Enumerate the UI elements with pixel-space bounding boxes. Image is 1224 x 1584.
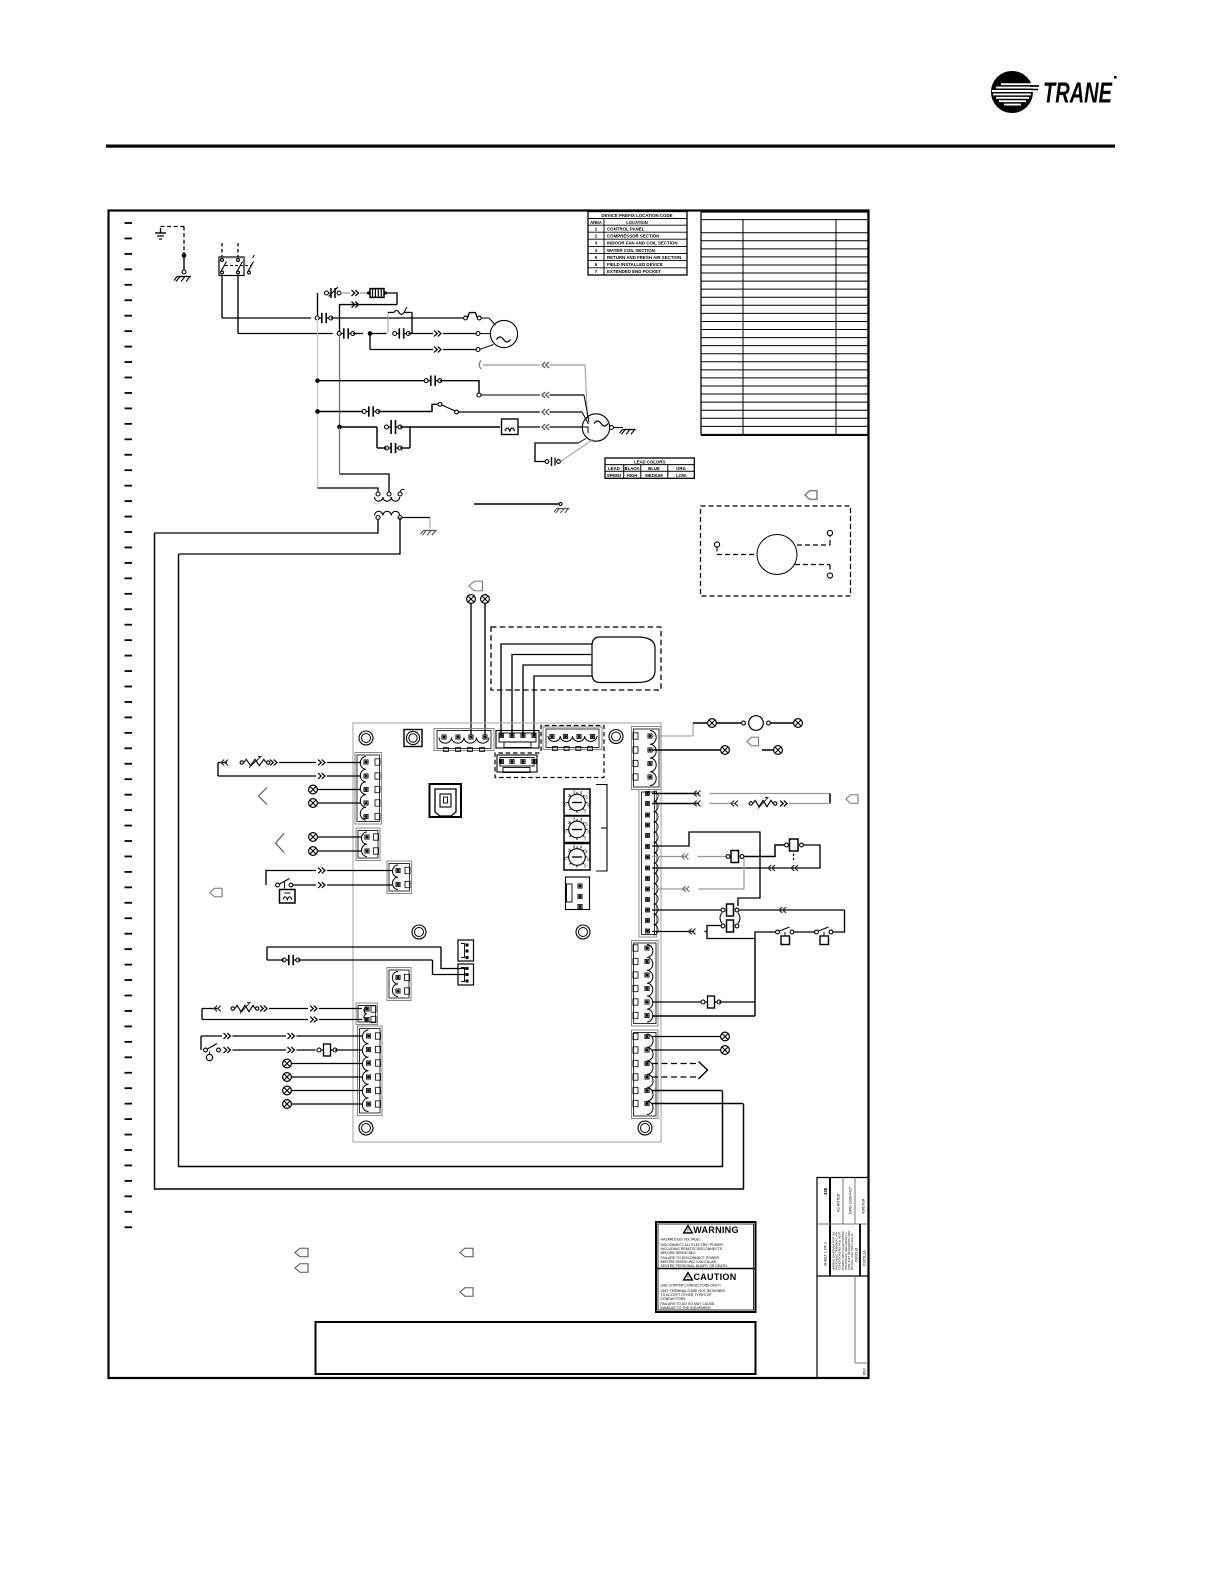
note chevron (276, 834, 285, 853)
fan motor 1B1 (490, 320, 517, 347)
wire (652, 793, 699, 795)
wire (202, 1009, 219, 1020)
wire (292, 1090, 363, 1092)
transformer 1T1 (375, 489, 405, 519)
wire (433, 960, 467, 975)
plug chevron (542, 362, 549, 368)
wire (402, 518, 430, 529)
dashed zone (495, 726, 604, 778)
node (315, 409, 319, 413)
connector (545, 457, 560, 466)
wire (652, 1103, 744, 1105)
warning caution label (656, 1222, 756, 1312)
header H1 (458, 940, 474, 961)
mounting hole (638, 1121, 652, 1135)
wire (501, 644, 592, 735)
plug chevron (779, 907, 786, 913)
plug chevron (693, 801, 700, 807)
wire L2 (237, 276, 239, 334)
wire (550, 365, 588, 419)
svg-text:DAMAGE TO THE EQUIPMENT.: DAMAGE TO THE EQUIPMENT. (661, 1306, 712, 1310)
wire (693, 722, 707, 724)
header P3 (566, 877, 590, 910)
wire (222, 317, 311, 319)
bracket (596, 785, 607, 872)
wire (710, 803, 737, 805)
svg-text:C802318: C802318 (855, 1248, 859, 1262)
wire (340, 305, 398, 334)
svg-text:SHEET 1 OF 2: SHEET 1 OF 2 (824, 1242, 828, 1266)
wire (652, 1090, 723, 1092)
wire (298, 959, 433, 961)
wire (341, 292, 351, 294)
wire (652, 749, 720, 751)
wire (550, 395, 590, 422)
terminal (182, 270, 186, 274)
sensor 4R1 (592, 637, 655, 683)
header H2 (458, 964, 474, 985)
pump motor (757, 535, 797, 575)
flag note 9 (460, 1248, 473, 1257)
plug chevron (310, 1017, 317, 1023)
svg-text:COMPRESSOR SECTION: COMPRESSOR SECTION (607, 234, 659, 239)
svg-text:LEAD COLORS: LEAD COLORS (634, 459, 665, 464)
svg-text:DEVICE PREFIX LOCATION CODE: DEVICE PREFIX LOCATION CODE (601, 213, 672, 218)
connector (bypass) (377, 443, 410, 453)
wire (179, 518, 401, 555)
wire (458, 411, 540, 413)
svg-text:ORG: ORG (676, 466, 686, 471)
svg-text:AREA: AREA (590, 220, 602, 225)
plug chevron (260, 1006, 267, 1012)
wire (652, 931, 694, 933)
flag note 8 (295, 1264, 308, 1273)
plug chevron (288, 1033, 295, 1039)
node junction (182, 253, 186, 257)
svg-text:BLACK: BLACK (624, 466, 640, 471)
wire (340, 474, 390, 492)
splice (283, 1073, 292, 1082)
wire (652, 803, 699, 805)
flag note 2 (210, 888, 222, 897)
inline fuse (317, 1044, 337, 1056)
wire (353, 333, 363, 335)
wire (789, 803, 830, 805)
connector J9 (387, 861, 412, 894)
flag note 10 (460, 1288, 473, 1297)
splice (309, 799, 318, 808)
plug chevron (434, 347, 441, 353)
svg-text:HAZARDOUS VOLTAGE!: HAZARDOUS VOLTAGE! (661, 1238, 701, 1242)
splice (721, 1032, 730, 1041)
svg-text:42PD42A: 42PD42A (862, 1198, 866, 1214)
legend table (empty rows) (701, 212, 868, 435)
svg-text:BEFORE SERVICING.: BEFORE SERVICING. (661, 1251, 697, 1255)
header rule (106, 145, 1115, 148)
test point pair (815, 927, 833, 945)
dual sensor A (721, 904, 739, 916)
node (337, 425, 341, 429)
wire (293, 884, 316, 886)
coil 1K1 (502, 419, 519, 435)
wire (to xfmr) (339, 427, 341, 474)
wire (297, 1049, 316, 1051)
varistor (749, 797, 777, 808)
wire (292, 1103, 363, 1105)
svg-text:LEAD: LEAD (608, 466, 620, 471)
field device enclosure (dashed) (701, 506, 851, 596)
flag note (469, 581, 483, 591)
wire (699, 859, 745, 890)
splice (309, 847, 318, 856)
svg-text:NOTES. USE WITH 3/4 HP: NOTES. USE WITH 3/4 HP (850, 1233, 854, 1270)
wire (292, 1063, 363, 1065)
notes box (316, 1322, 756, 1374)
connector (385, 420, 403, 434)
relay coil 2K1 (742, 716, 771, 731)
plug chevron (214, 1006, 221, 1012)
svg-text:CAUTION: CAUTION (693, 1272, 736, 1282)
wire (292, 1076, 363, 1078)
wire (408, 333, 433, 335)
connector (362, 406, 380, 416)
wire (470, 604, 472, 736)
mounting hole (359, 731, 373, 745)
svg-text:HIGH: HIGH (627, 473, 638, 478)
svg-text:DWG 2306-4417: DWG 2306-4417 (849, 1187, 853, 1214)
svg-text:RETURN AND FRESH AIR SECTION: RETURN AND FRESH AIR SECTION (607, 255, 681, 260)
wire (652, 1015, 755, 1017)
device prefix location code table (588, 212, 687, 276)
wire (762, 749, 773, 751)
terminal (610, 426, 614, 430)
plug chevron (542, 392, 549, 398)
header P1 (496, 731, 539, 749)
limit switch (464, 313, 482, 320)
wire (652, 1049, 721, 1051)
wire (614, 427, 624, 429)
svg-text:FIELD INSTALLED DEVICE: FIELD INSTALLED DEVICE (607, 262, 663, 267)
svg-text:TRANE: TRANE (1043, 78, 1113, 110)
flag note 7 (295, 1248, 308, 1257)
svg-text:CONDUCTORS.: CONDUCTORS. (661, 1297, 687, 1301)
connector (393, 328, 411, 338)
connector J5 (632, 941, 659, 1027)
condensate switch (276, 879, 293, 889)
svg-text:WATER COIL SECTION: WATER COIL SECTION (607, 248, 655, 253)
svg-text:AS NOTED: AS NOTED (837, 1193, 841, 1212)
wire (340, 426, 378, 428)
splice (721, 746, 730, 755)
wire (370, 333, 387, 335)
splice (283, 1086, 292, 1095)
wire (field) (339, 334, 341, 428)
plug chevron (318, 882, 325, 888)
dashed lead (717, 554, 757, 556)
wire (483, 364, 540, 366)
connector J8 (356, 828, 380, 861)
splice 1 (467, 595, 476, 604)
wire (652, 909, 721, 911)
wire (754, 939, 756, 1017)
wire (705, 931, 708, 933)
connector (267, 955, 300, 965)
wire (652, 856, 687, 858)
plug chevron (731, 801, 738, 807)
wire (319, 1019, 362, 1021)
wire (561, 440, 594, 462)
connector J2 (543, 727, 602, 751)
mounting hole (609, 730, 623, 744)
plug chevron (791, 865, 798, 871)
wire (578, 439, 586, 444)
wire (318, 850, 362, 852)
wire (652, 1036, 721, 1038)
rotary switch S1 (564, 789, 590, 816)
node (368, 331, 372, 335)
svg-text:34E: 34E (823, 1187, 828, 1195)
terminal (827, 573, 832, 578)
splice (794, 719, 803, 728)
wire (719, 1001, 755, 1003)
wire (652, 723, 693, 736)
wire (bus B) (155, 533, 744, 1189)
wire (512, 655, 592, 736)
wire (739, 909, 845, 911)
paren mark (479, 361, 481, 370)
wire (550, 427, 589, 433)
control board outline (353, 723, 661, 1142)
splice (708, 719, 717, 728)
plug chevron (682, 886, 689, 892)
wire (523, 665, 592, 735)
wire (518, 426, 540, 428)
connector J4 (639, 790, 658, 938)
connector J11 (358, 1026, 383, 1116)
wire (202, 1019, 308, 1021)
wire (218, 763, 227, 777)
wire (335, 1049, 362, 1051)
wire (327, 775, 361, 777)
svg-text:CXC3L2A: CXC3L2A (863, 1250, 867, 1266)
title block (817, 1178, 868, 1378)
plug chevron (688, 929, 695, 935)
wire (378, 404, 438, 411)
float switch (204, 1044, 221, 1061)
svg-text:USE COPPER CONDUCTORS ONLY!: USE COPPER CONDUCTORS ONLY! (661, 1284, 721, 1288)
wire (652, 888, 688, 890)
wire (652, 1001, 702, 1003)
plug chevron (352, 290, 359, 296)
connector J7 (355, 753, 382, 825)
chassis ground (554, 509, 569, 514)
plug chevron (221, 760, 228, 766)
wire (360, 292, 367, 294)
wire (474, 503, 562, 506)
wire (744, 845, 784, 857)
fan motor 1B2 (582, 414, 609, 441)
wire (484, 604, 486, 736)
plug chevron (693, 791, 700, 797)
plug chevron (288, 1047, 295, 1053)
inline fuse (701, 996, 721, 1008)
wire (370, 349, 433, 351)
sensor link arcs (720, 913, 740, 924)
wire loop (535, 443, 578, 462)
wire (279, 762, 316, 764)
wire (443, 345, 494, 352)
svg-text:INDOOR FAN AND COIL SECTION: INDOOR FAN AND COIL SECTION (607, 241, 678, 246)
connector (424, 376, 442, 386)
wire (327, 870, 392, 872)
plug chevron (224, 1047, 231, 1053)
dual sensor B (721, 920, 739, 932)
switch contact (438, 402, 458, 414)
header P2 (497, 755, 537, 773)
plug chevron (318, 760, 325, 766)
test point pair (776, 927, 794, 945)
wire (319, 1008, 362, 1010)
plug chevron (542, 424, 549, 430)
svg-text:LOCATION: LOCATION (626, 220, 648, 225)
overload 1U1 (388, 307, 412, 334)
sensor harness (dashed) (491, 627, 661, 690)
wire (318, 789, 362, 791)
actuator coil (280, 890, 296, 904)
lead colors table (605, 458, 694, 478)
plug chevron (352, 302, 359, 308)
plug chevron (318, 868, 325, 874)
connector J1 (434, 729, 494, 752)
dashed lead (652, 1063, 697, 1065)
wire (183, 252, 185, 270)
margin tick marks (125, 223, 133, 1227)
wire (652, 832, 760, 906)
inline device (726, 851, 744, 863)
Trane logo (992, 72, 1117, 113)
arrow head (699, 1062, 708, 1080)
USB connector U1 (430, 784, 462, 817)
wire (443, 332, 491, 336)
wire (317, 293, 319, 318)
svg-text:SPEED: SPEED (607, 473, 622, 478)
thermistor 3R1 (240, 756, 270, 767)
note chevron (259, 788, 268, 805)
plug chevron (318, 773, 325, 779)
wire (201, 1036, 222, 1050)
wire (318, 380, 427, 382)
wire (376, 427, 378, 448)
wire (717, 722, 742, 724)
wire (707, 926, 776, 939)
wire (400, 427, 500, 448)
svg-text:EXTENDED END POCKET: EXTENDED END POCKET (607, 269, 661, 274)
mounting hole (404, 730, 422, 747)
plug chevron (224, 1033, 231, 1039)
dashed lead (652, 1076, 697, 1078)
connector 3A (315, 313, 333, 323)
thermistor 2R1 (231, 1002, 259, 1013)
flag note 6 (805, 491, 817, 500)
plug chevron (270, 760, 277, 766)
connector J6 (632, 1030, 659, 1119)
rotary switch S2 (564, 816, 590, 843)
dashed lead (795, 565, 830, 573)
terminal (827, 530, 832, 535)
node (315, 379, 319, 383)
plug chevron (780, 801, 787, 807)
plug chevron (768, 865, 775, 871)
splice (283, 1059, 292, 1068)
dashed lead (797, 536, 830, 545)
chassis ground (421, 531, 437, 536)
wire (386, 293, 397, 305)
plug chevron (542, 409, 549, 415)
splice connector (325, 287, 341, 298)
wire (331, 317, 463, 319)
dashed wire to disconnect (161, 227, 185, 253)
terminal (714, 542, 719, 552)
svg-text:WARNING: WARNING (693, 1225, 739, 1235)
connector 3B (337, 328, 355, 338)
splice (309, 785, 318, 794)
chassis ground (174, 277, 191, 282)
wire (710, 794, 831, 804)
mounting hole (576, 925, 590, 939)
wire (534, 676, 592, 735)
wire L1 (221, 276, 223, 319)
wire (327, 762, 361, 764)
wire (bus A) (179, 554, 723, 1167)
flag note 4 (846, 795, 858, 804)
wire (440, 381, 479, 393)
wire (318, 802, 362, 804)
wire (833, 910, 845, 932)
splice 2 (481, 595, 490, 604)
wire (318, 411, 365, 413)
wire (266, 871, 316, 886)
connector J3 (632, 727, 662, 790)
wire (267, 947, 441, 960)
wire (441, 947, 466, 969)
svg-text:REV: REV (863, 1367, 867, 1375)
disconnect switch 1S1 (219, 243, 255, 276)
splice (721, 1046, 730, 1055)
wire (652, 845, 820, 868)
wire (369, 334, 371, 350)
svg-text:SEVERE PERSONAL INJURY OR DEAT: SEVERE PERSONAL INJURY OR DEATH. (661, 1264, 728, 1268)
wire (field) (317, 318, 319, 488)
flag note 3 (747, 737, 759, 746)
wire (794, 931, 815, 933)
wire (269, 1008, 308, 1010)
wire (238, 333, 333, 335)
wire (233, 1049, 287, 1051)
plug chevron (310, 1006, 317, 1012)
resistor heater 1HR (367, 289, 387, 298)
wire (550, 412, 589, 424)
rotary switch S3 (564, 844, 590, 871)
plug chevron (681, 854, 688, 860)
connector J12 (387, 968, 411, 1001)
splice (283, 1100, 292, 1109)
svg-text:MEDIUM: MEDIUM (645, 473, 663, 478)
earth ground symbol (155, 228, 166, 239)
wire (481, 394, 540, 396)
terminal (477, 393, 481, 397)
wire (698, 856, 727, 858)
wire (155, 520, 379, 534)
